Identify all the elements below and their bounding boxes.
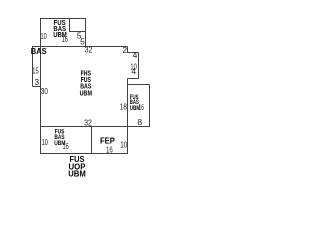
svg-text:30: 30 xyxy=(41,86,48,96)
wire: right edge 10ft vertical xyxy=(138,53,140,79)
node: top addition area labels FUS/BAS/UBM xyxy=(53,20,67,39)
wire: left edge of building (top addition + main + bottom-left box) xyxy=(40,18,42,154)
wire: bottom boxes bottom edge xyxy=(40,153,128,155)
svg-text:16: 16 xyxy=(62,34,68,44)
svg-text:BAS: BAS xyxy=(31,46,47,56)
wire: main right edge lower vertical xyxy=(127,79,129,155)
svg-text:32: 32 xyxy=(85,44,93,54)
svg-text:15: 15 xyxy=(32,66,39,76)
wire: right wing top edge xyxy=(128,84,150,86)
node: right wing area labels FUS/BAS/UBM xyxy=(130,94,141,112)
svg-text:8: 8 xyxy=(137,117,142,127)
svg-text:4: 4 xyxy=(133,50,138,60)
svg-text:18: 18 xyxy=(120,102,127,112)
wire: right step 4ft horizontal xyxy=(128,52,139,54)
wire: sub-box bottom edge xyxy=(70,31,86,33)
svg-text:UBM: UBM xyxy=(80,90,93,97)
svg-text:3: 3 xyxy=(34,77,39,87)
wire: main box bottom edge xyxy=(40,126,150,128)
wire: bottom boxes divider xyxy=(91,127,93,154)
wire: BAS bump left edge xyxy=(32,47,34,87)
wire: BAS bump bottom step xyxy=(33,86,41,88)
wire: right wing right edge xyxy=(149,85,151,128)
svg-text:10: 10 xyxy=(120,140,127,150)
wire: top addition inner divider xyxy=(69,19,71,33)
wire: top addition top edge xyxy=(40,18,86,20)
svg-text:UBM: UBM xyxy=(68,170,86,179)
svg-text:10: 10 xyxy=(42,137,48,147)
dimension labels xyxy=(32,31,144,155)
svg-text:10: 10 xyxy=(41,31,47,41)
wire: main box top edge xyxy=(32,46,128,48)
node: main center area labels FHS/FUS/BAS/UBM xyxy=(80,71,93,98)
svg-text:16: 16 xyxy=(106,145,113,155)
svg-text:16: 16 xyxy=(63,141,69,151)
node: bottom-left box area labels FUS/BAS/UBM xyxy=(54,129,66,148)
node: open porch labels FUS/UOP/UBM xyxy=(68,155,86,179)
svg-text:4: 4 xyxy=(131,66,136,76)
svg-text:16: 16 xyxy=(139,102,144,112)
wire: right step 2ft vertical xyxy=(127,47,129,54)
svg-text:2: 2 xyxy=(122,45,127,55)
wire: right step-back 4ft horizontal xyxy=(128,78,139,80)
svg-text:32: 32 xyxy=(84,117,92,127)
wire: top addition right edge xyxy=(85,19,87,47)
